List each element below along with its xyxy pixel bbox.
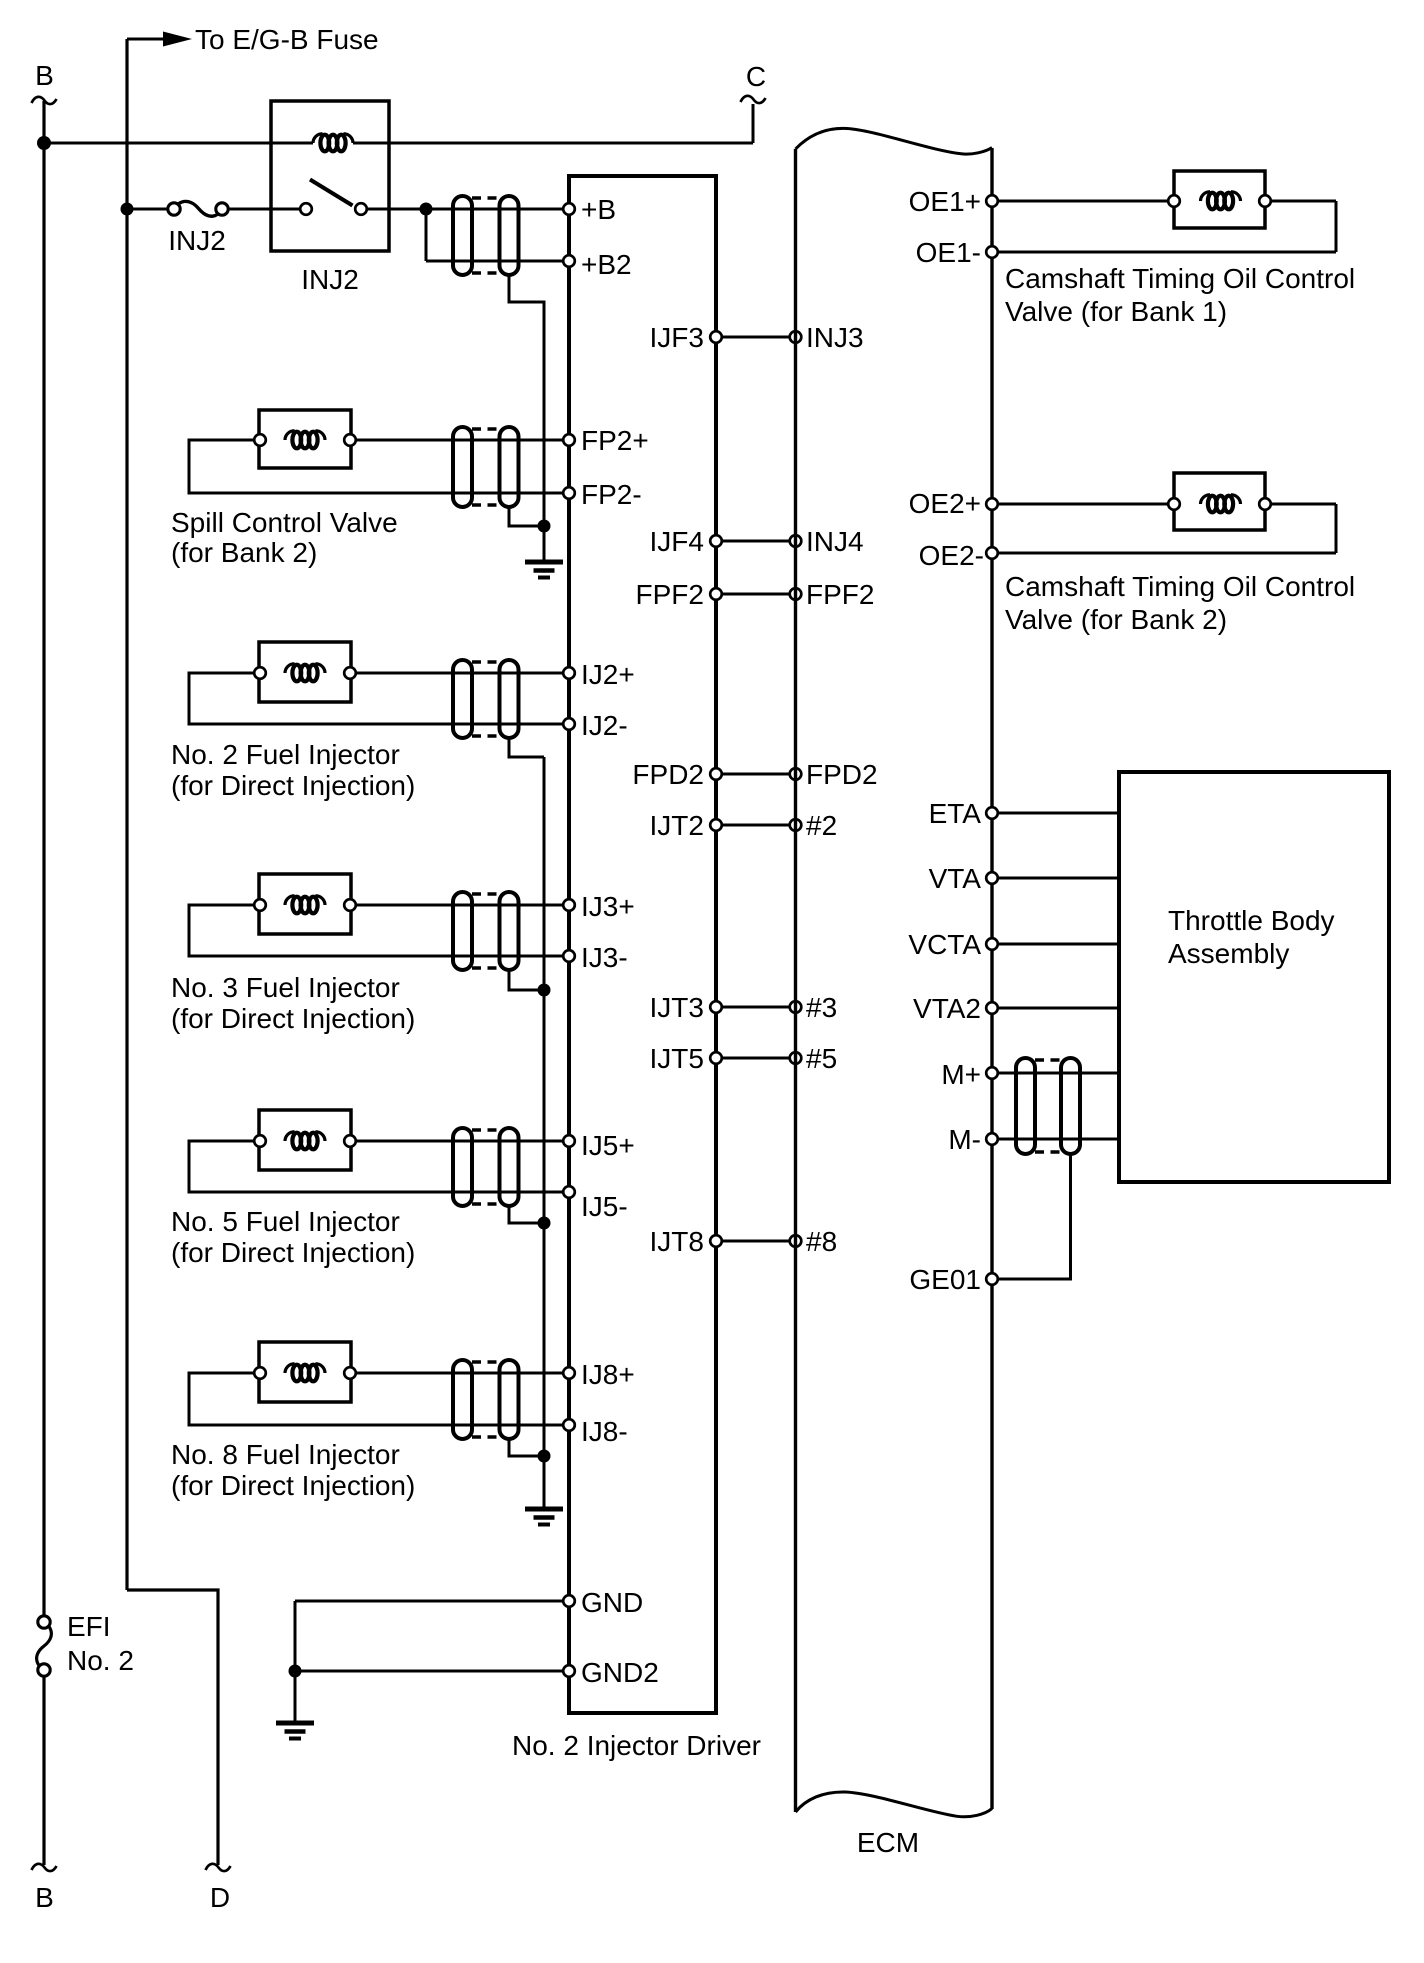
svg-text:VTA: VTA [929, 863, 982, 894]
wire IJT5 to #5 [716, 1057, 796, 1060]
coil Spill Control Valve [285, 431, 325, 449]
svg-text:FP2-: FP2- [581, 479, 642, 510]
wire shield drain of IJ2 pair [509, 739, 544, 757]
wire M+ to throttle body [992, 1072, 1119, 1075]
svg-text:No. 8 Fuel Injector: No. 8 Fuel Injector [171, 1439, 400, 1470]
relay INJ2 box [271, 101, 389, 251]
driver pin FP2- [563, 487, 575, 499]
wire IJT3 to #3 [716, 1006, 796, 1009]
wire OCV2 to right riser [1265, 503, 1336, 506]
junction at +B branch [420, 203, 433, 216]
svg-text:IJ3+: IJ3+ [581, 891, 635, 922]
svg-text:To E/G-B Fuse: To E/G-B Fuse [195, 24, 379, 55]
injector No. 2 coil [285, 664, 325, 682]
ECM pin #8 [790, 1235, 802, 1247]
fuse INJ2 left terminal [168, 203, 180, 215]
ECM pin OE2+ [986, 498, 998, 510]
driver pin IJ5- [563, 1186, 575, 1198]
break symbol at node B bottom [32, 1864, 57, 1871]
fuse INJ2 right terminal [216, 203, 228, 215]
wire injector 2 left lead to IJ2- [189, 673, 564, 724]
wire fuse INJ2 to relay switch [229, 208, 301, 211]
svg-text:GND2: GND2 [581, 1657, 659, 1688]
ECM pin #3 [790, 1001, 802, 1013]
injector No. 3 left pin [254, 899, 266, 911]
wire OCV1 riser [1335, 201, 1338, 252]
svg-text:Camshaft Timing Oil Control: Camshaft Timing Oil Control [1005, 571, 1355, 602]
wire VCTA to throttle body [992, 943, 1119, 946]
driver pin FP2+ [563, 434, 575, 446]
svg-text:No. 2 Injector Driver: No. 2 Injector Driver [512, 1730, 761, 1761]
wire FPD2 to FPD2 [716, 773, 796, 776]
svg-text:INJ2: INJ2 [301, 264, 359, 295]
wire Spill valve left lead [189, 440, 564, 493]
wire injector 8 right lead to IJ8+ [356, 1372, 564, 1375]
wire VTA to throttle body [992, 877, 1119, 880]
svg-text:(for Direct Injection): (for Direct Injection) [171, 1237, 415, 1268]
svg-text:FPF2: FPF2 [636, 579, 704, 610]
wire IJT8 to #8 [716, 1240, 796, 1243]
svg-text:ECM: ECM [857, 1827, 919, 1858]
ECM pin VTA [986, 872, 998, 884]
svg-text:IJ2-: IJ2- [581, 710, 628, 741]
ECM pin OE2- [986, 547, 998, 559]
svg-text:GND: GND [581, 1587, 643, 1618]
injector No. 3 right pin [344, 899, 356, 911]
ground for GND/GND2 [276, 1721, 314, 1741]
ECM left edge [794, 149, 797, 1812]
OCV1 left pin [1168, 195, 1180, 207]
injector No. 8 coil box [259, 1342, 351, 1402]
wire OE2+ to oil control valve 2 [992, 503, 1174, 506]
svg-text:VCTA: VCTA [908, 929, 981, 960]
junction GND/GND2 [289, 1665, 302, 1678]
svg-text:#2: #2 [806, 810, 837, 841]
wire injector 3 left lead to IJ3- [189, 905, 564, 956]
driver pin IJF3 [710, 331, 722, 343]
svg-text:B: B [35, 60, 54, 91]
driver pin +B2 [563, 255, 575, 267]
ECM pin #5 [790, 1052, 802, 1064]
svg-text:(for Direct Injection): (for Direct Injection) [171, 1003, 415, 1034]
fuse EFI No. 2 top terminal [38, 1616, 50, 1628]
driver pin IJ8+ [563, 1367, 575, 1379]
wire M- to throttle body [992, 1138, 1119, 1141]
ECM pin VCTA [986, 938, 998, 950]
solenoid coil box Spill Control Valve [259, 410, 351, 468]
wire shield drain of IJ5 pair [509, 1207, 544, 1223]
ground for injector shields [525, 1507, 563, 1527]
injector No. 8 coil [285, 1364, 325, 1382]
wire injector 5 left lead to IJ5- [189, 1141, 564, 1192]
svg-text:INJ3: INJ3 [806, 322, 864, 353]
svg-text:INJ2: INJ2 [168, 225, 226, 256]
wire injector 2 right lead to IJ2+ [356, 672, 564, 675]
driver pin IJT2 [710, 819, 722, 831]
break symbol at node D [206, 1864, 231, 1871]
ECM pin FPF2 [790, 588, 802, 600]
shielded twisted pair on +B/+B2 [453, 196, 519, 275]
wire branch down to +B2 row [425, 209, 428, 261]
ECM torn bottom edge [796, 1792, 993, 1817]
svg-text:FPD2: FPD2 [632, 759, 704, 790]
ECM pin #2 [790, 819, 802, 831]
svg-text:IJT5: IJT5 [650, 1043, 704, 1074]
wire shield drain of +B pair [509, 276, 544, 526]
oil control valve 1 coil box [1174, 171, 1265, 228]
wire IJT2 to #2 [716, 824, 796, 827]
ground for +B/FP2 shields [525, 560, 563, 580]
fuse EFI No. 2 element [37, 1627, 52, 1666]
oil control valve 1 coil [1201, 192, 1241, 210]
wire E/G-B rail vertical [125, 39, 128, 1590]
No. 2 Injector Driver box [569, 176, 716, 1713]
svg-text:IJ8-: IJ8- [581, 1416, 628, 1447]
svg-text:IJF4: IJF4 [650, 526, 704, 557]
svg-text:+B2: +B2 [581, 249, 632, 280]
svg-text:FP2+: FP2+ [581, 425, 649, 456]
ECM pin GE01 [986, 1273, 998, 1285]
OCV2 left pin [1168, 498, 1180, 510]
wire injector 3 right lead to IJ3+ [356, 904, 564, 907]
svg-text:Valve (for Bank 1): Valve (for Bank 1) [1005, 296, 1227, 327]
svg-text:Valve (for Bank 2): Valve (for Bank 2) [1005, 604, 1227, 635]
injector No. 3 coil [285, 896, 325, 914]
relay INJ2 coil [313, 134, 353, 152]
svg-text:(for Direct Injection): (for Direct Injection) [171, 1470, 415, 1501]
driver pin IJT8 [710, 1235, 722, 1247]
oil control valve 2 coil box [1174, 473, 1265, 530]
driver pin IJF4 [710, 535, 722, 547]
shielded twisted pair on M+/M- [1016, 1058, 1080, 1154]
wire OCV1 return to OE1- [992, 251, 1336, 254]
driver pin +B [563, 203, 575, 215]
driver pin IJ5+ [563, 1135, 575, 1147]
ECM pin OE1- [986, 246, 998, 258]
injector No. 3 coil box [259, 874, 351, 934]
junction shield drain IJ8 [538, 1450, 551, 1463]
wire OCV1 to right riser [1265, 200, 1336, 203]
junction on E/G-B rail at INJ2 fuse row [121, 203, 134, 216]
wire shield drain of FP2 pair [509, 508, 544, 526]
driver pin FPF2 [710, 588, 722, 600]
ECM pin FPD2 [790, 768, 802, 780]
svg-text:INJ4: INJ4 [806, 526, 864, 557]
Throttle Body Assembly box [1119, 772, 1389, 1182]
wire branch to +B2 [426, 260, 564, 263]
ECM pin M+ [986, 1067, 998, 1079]
driver pin FPD2 [710, 768, 722, 780]
driver pin GND [563, 1595, 575, 1607]
wire B rail lower segment [42, 1677, 45, 1865]
driver pin IJ2- [563, 718, 575, 730]
injector No. 2 left pin [254, 667, 266, 679]
driver pin IJ8- [563, 1419, 575, 1431]
wire FPF2 to FPF2 [716, 593, 796, 596]
svg-text:GE01: GE01 [909, 1264, 981, 1295]
relay INJ2 switch arm [310, 180, 353, 206]
OCV2 right pin [1259, 498, 1271, 510]
wire riser to node C [752, 104, 755, 143]
relay INJ2 switch left contact [300, 203, 312, 215]
wire GND2 to ground [295, 1670, 564, 1673]
svg-text:M+: M+ [941, 1059, 981, 1090]
driver pin GND2 [563, 1665, 575, 1677]
junction shield drain IJ3 [538, 984, 551, 997]
shielded twisted pair on IJ2+/IJ2- [453, 660, 519, 738]
oil control valve 2 coil [1201, 495, 1241, 513]
svg-text:#5: #5 [806, 1043, 837, 1074]
svg-text:EFI: EFI [67, 1611, 111, 1642]
driver pin IJ3+ [563, 899, 575, 911]
svg-text:(for Bank 2): (for Bank 2) [171, 537, 317, 568]
wire arrow stem to E/G-B fuse [127, 38, 168, 41]
svg-text:No. 2 Fuel Injector: No. 2 Fuel Injector [171, 739, 400, 770]
ECM pin INJ3 [790, 331, 802, 343]
svg-text:OE1-: OE1- [916, 237, 981, 268]
svg-text:#8: #8 [806, 1226, 837, 1257]
svg-text:IJT8: IJT8 [650, 1226, 704, 1257]
svg-text:OE2+: OE2+ [909, 488, 981, 519]
svg-text:VTA2: VTA2 [913, 993, 981, 1024]
svg-text:IJ8+: IJ8+ [581, 1359, 635, 1390]
driver pin IJ3- [563, 950, 575, 962]
junction shield drain IJ5 [538, 1217, 551, 1230]
wire junction to ground symbol [294, 1671, 297, 1723]
wire E/G-B rail bottom jog [127, 1590, 218, 1865]
svg-text:IJF3: IJF3 [650, 322, 704, 353]
wire B rail upper segment [42, 101, 45, 1615]
svg-text:FPD2: FPD2 [806, 759, 878, 790]
ECM right edge [990, 148, 993, 1809]
wire shield drain of M pair to GE01 [998, 1155, 1071, 1279]
ECM pin VTA2 [986, 1002, 998, 1014]
svg-text:D: D [210, 1882, 230, 1913]
wire OCV2 return to OE2- [992, 552, 1336, 555]
svg-text:OE1+: OE1+ [909, 186, 981, 217]
wire from junction to fuse INJ2 [127, 208, 167, 211]
injector No. 8 left pin [254, 1367, 266, 1379]
wire main feed y=143 left of relay coil [44, 142, 313, 145]
relay INJ2 switch right contact [355, 203, 367, 215]
svg-text:Throttle Body: Throttle Body [1168, 905, 1335, 936]
fuse EFI No. 2 bottom terminal [38, 1664, 50, 1676]
svg-text:Assembly: Assembly [1168, 938, 1289, 969]
driver pin IJT5 [710, 1052, 722, 1064]
wire OE1+ to oil control valve 1 [992, 200, 1174, 203]
wire OCV2 riser [1335, 504, 1338, 553]
wire IJF3 to INJ3 [716, 336, 796, 339]
svg-text:Camshaft Timing Oil Control: Camshaft Timing Oil Control [1005, 263, 1355, 294]
arrowhead to E/G-B fuse [163, 32, 192, 47]
injector No. 5 coil box [259, 1110, 351, 1170]
svg-text:IJ5-: IJ5- [581, 1191, 628, 1222]
svg-text:OE2-: OE2- [919, 540, 984, 571]
svg-text:IJT3: IJT3 [650, 992, 704, 1023]
break symbol at node C [741, 96, 766, 103]
svg-text:IJ2+: IJ2+ [581, 659, 635, 690]
injector No. 2 coil box [259, 642, 351, 702]
wire VTA2 to throttle body [992, 1007, 1119, 1010]
svg-text:ETA: ETA [929, 798, 982, 829]
ECM pin M- [986, 1133, 998, 1145]
wire injector 5 right lead to IJ5+ [356, 1140, 564, 1143]
svg-text:+B: +B [581, 194, 616, 225]
injector No. 8 right pin [344, 1367, 356, 1379]
shielded twisted pair on IJ8+/IJ8- [453, 1360, 519, 1439]
wire main feed y=143 right of relay coil [353, 142, 753, 145]
svg-text:M-: M- [948, 1124, 981, 1155]
shielded twisted pair on IJ5+/IJ5- [453, 1128, 519, 1206]
injector No. 5 left pin [254, 1135, 266, 1147]
svg-text:FPF2: FPF2 [806, 579, 874, 610]
junction of shield drains [538, 520, 551, 533]
wire shield drain of IJ3 pair [509, 971, 544, 990]
wire relay output to +B [367, 208, 564, 211]
wire shield drain of IJ8 pair [509, 1440, 544, 1456]
svg-text:No. 5 Fuel Injector: No. 5 Fuel Injector [171, 1206, 400, 1237]
Spill Control Valve right pin [344, 434, 356, 446]
svg-text:#3: #3 [806, 992, 837, 1023]
wire ETA to throttle body [992, 812, 1119, 815]
svg-text:IJT2: IJT2 [650, 810, 704, 841]
shielded twisted pair on IJ3+/IJ3- [453, 892, 519, 970]
svg-text:C: C [746, 61, 766, 92]
wire drain to ground [543, 526, 546, 562]
ECM pin ETA [986, 807, 998, 819]
junction on B rail at main feed [37, 136, 51, 150]
shielded twisted pair on FP2+/FP2- [453, 427, 519, 507]
OCV1 right pin [1259, 195, 1271, 207]
injector No. 2 right pin [344, 667, 356, 679]
wire GND down leg [294, 1601, 297, 1671]
break symbol at node B top [32, 97, 57, 104]
svg-text:B: B [35, 1882, 54, 1913]
svg-text:Spill Control Valve: Spill Control Valve [171, 507, 398, 538]
wire shield drain rail [543, 757, 546, 1509]
ECM pin OE1+ [986, 195, 998, 207]
wire IJF4 to INJ4 [716, 540, 796, 543]
wire Spill valve right lead to FP2+ [356, 439, 564, 442]
injector No. 5 right pin [344, 1135, 356, 1147]
wire GND to ground [295, 1600, 564, 1603]
injector No. 5 coil [285, 1132, 325, 1150]
ECM pin INJ4 [790, 535, 802, 547]
fuse INJ2 element [178, 201, 219, 216]
ECM torn top edge [796, 128, 993, 154]
svg-text:IJ5+: IJ5+ [581, 1130, 635, 1161]
svg-text:(for Direct Injection): (for Direct Injection) [171, 770, 415, 801]
svg-text:IJ3-: IJ3- [581, 942, 628, 973]
driver pin IJT3 [710, 1001, 722, 1013]
Spill Control Valve left pin [254, 434, 266, 446]
driver pin IJ2+ [563, 667, 575, 679]
wire injector 8 left lead to IJ8- [189, 1373, 564, 1425]
svg-text:No. 3 Fuel Injector: No. 3 Fuel Injector [171, 972, 400, 1003]
svg-text:No. 2: No. 2 [67, 1645, 134, 1676]
